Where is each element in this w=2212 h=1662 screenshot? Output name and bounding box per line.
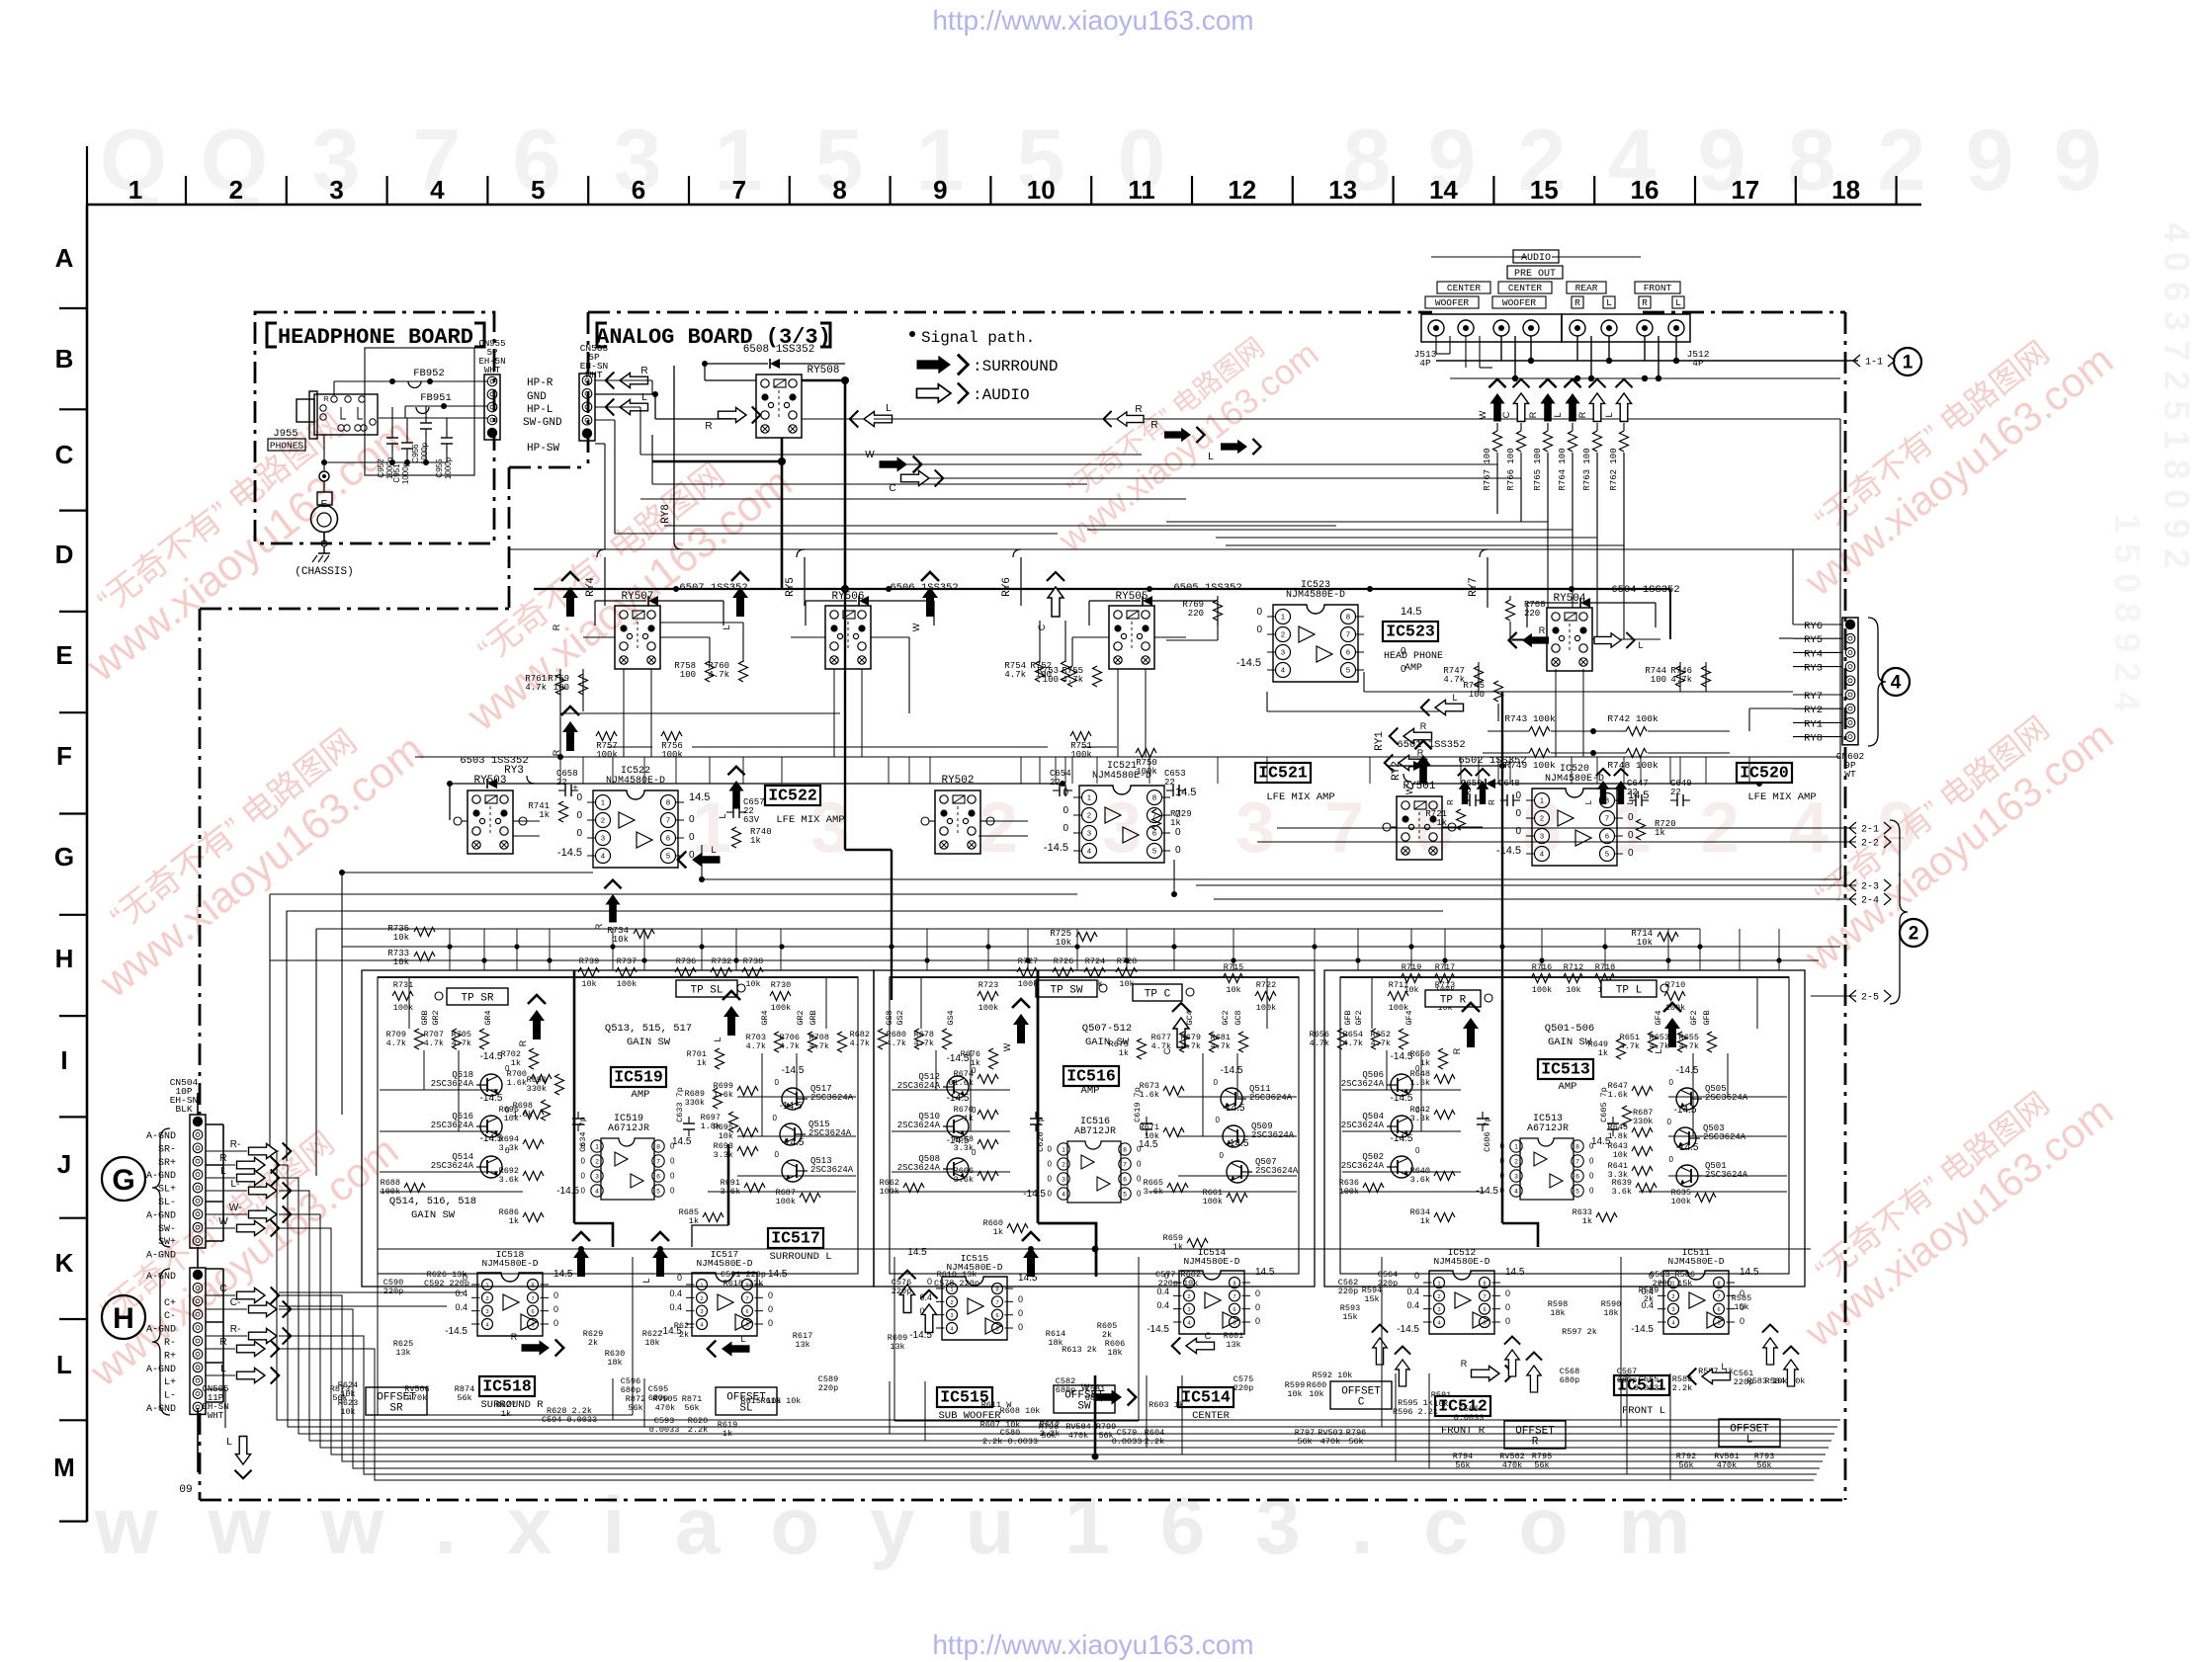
node 2-1 xyxy=(1277,822,1891,836)
svg-text:L: L xyxy=(1584,799,1593,804)
box OFFSET SW xyxy=(1054,1385,1115,1413)
svg-text:R722: R722 xyxy=(1256,980,1276,990)
svg-text:HEAD PHONE: HEAD PHONE xyxy=(1384,651,1443,662)
svg-text:1: 1 xyxy=(700,1284,703,1289)
svg-text:0.4: 0.4 xyxy=(669,1302,682,1312)
svg-text:13k: 13k xyxy=(890,1342,904,1352)
svg-text:6506 1SS352: 6506 1SS352 xyxy=(890,582,958,594)
svg-text:-14.5: -14.5 xyxy=(1496,845,1521,857)
rotated labels GF block C xyxy=(1343,1010,1712,1025)
svg-text:L: L xyxy=(1638,640,1643,650)
svg-text:10k: 10k xyxy=(581,979,596,989)
svg-text:10k: 10k xyxy=(1637,938,1653,948)
svg-text:GRB: GRB xyxy=(420,1010,430,1025)
svg-text:E: E xyxy=(55,640,72,670)
wires relay band xyxy=(415,589,1840,760)
connector CN955 xyxy=(478,339,505,440)
svg-text:R613 2k: R613 2k xyxy=(1062,1345,1097,1355)
svg-text:0: 0 xyxy=(553,1304,558,1314)
svg-text:100k: 100k xyxy=(1018,979,1038,989)
svg-text:1.6k: 1.6k xyxy=(1410,1078,1430,1088)
svg-text:R603 1k: R603 1k xyxy=(1149,1400,1184,1410)
svg-text:220p 13k: 220p 13k xyxy=(1158,1279,1199,1288)
svg-text:14.5: 14.5 xyxy=(1505,1267,1525,1278)
node 1-1 xyxy=(1853,355,1895,369)
svg-text:10k: 10k xyxy=(1226,985,1240,995)
svg-text:0: 0 xyxy=(1048,1175,1053,1184)
svg-text:2SC3624A: 2SC3624A xyxy=(1341,1079,1385,1089)
svg-text:RY502: RY502 xyxy=(941,775,974,787)
svg-text:14: 14 xyxy=(1429,175,1458,205)
svg-text:3.3k: 3.3k xyxy=(499,1143,519,1153)
svg-text:01.6k: 01.6k xyxy=(948,1078,974,1088)
svg-text:2SC3624A: 2SC3624A xyxy=(1341,1121,1385,1130)
svg-text:2: 2 xyxy=(1671,1294,1674,1300)
relay RY503 xyxy=(454,775,527,854)
svg-text:14.5: 14.5 xyxy=(1591,1136,1611,1147)
svg-text:RY4: RY4 xyxy=(585,577,597,597)
svg-text:L: L xyxy=(711,845,716,855)
svg-text:R737: R737 xyxy=(617,956,637,966)
label RY2 xyxy=(1391,761,1411,782)
svg-text:GR2: GR2 xyxy=(796,1010,806,1025)
svg-text:0: 0 xyxy=(1505,1302,1510,1312)
svg-text:100: 100 xyxy=(1651,675,1666,685)
svg-text:0: 0 xyxy=(1175,845,1181,856)
node 2-5 xyxy=(1811,990,1891,1004)
arrow R gain C xyxy=(1452,1003,1480,1054)
svg-text:4: 4 xyxy=(601,852,605,861)
svg-text:10k: 10k xyxy=(393,957,409,967)
svg-text:0: 0 xyxy=(1669,1155,1674,1164)
IC520 label box xyxy=(1737,763,1817,803)
svg-text:6: 6 xyxy=(1346,648,1350,657)
svg-text:L: L xyxy=(1721,1362,1726,1371)
arrow R relay band xyxy=(552,572,579,630)
svg-text:1 5 0 8 9 2 4: 1 5 0 8 9 2 4 xyxy=(2107,514,2148,711)
svg-text:1: 1 xyxy=(595,1143,599,1150)
svg-text:R-: R- xyxy=(230,1139,241,1150)
svg-text:R764 100: R764 100 xyxy=(1558,448,1568,490)
svg-text:L-: L- xyxy=(231,1179,240,1190)
svg-text:2k: 2k xyxy=(679,1330,689,1340)
svg-text:3: 3 xyxy=(1102,789,1142,868)
svg-text:L+: L+ xyxy=(164,1377,176,1388)
callout 4 xyxy=(1868,618,1910,746)
svg-text:PRE OUT: PRE OUT xyxy=(1514,269,1556,280)
svg-text:1k: 1k xyxy=(1655,828,1665,838)
arrow L down CN505 xyxy=(206,1389,252,1478)
svg-text:0: 0 xyxy=(1255,1302,1260,1312)
pre out connectors J513 J512 xyxy=(1414,250,1710,369)
svg-text:0.0033: 0.0033 xyxy=(1634,1383,1664,1393)
arrow C relay band xyxy=(1037,572,1064,630)
svg-text:5: 5 xyxy=(666,852,670,861)
svg-text:F: F xyxy=(56,741,72,771)
svg-text:GF2: GF2 xyxy=(1689,1010,1699,1025)
page frame with grid rulers xyxy=(53,146,1921,1522)
svg-text:L-: L- xyxy=(164,1391,176,1402)
resistor R687b xyxy=(1623,1106,1654,1126)
diode 6503 1SS352 xyxy=(447,755,1065,789)
svg-text:8: 8 xyxy=(1483,1282,1486,1288)
svg-text:WHT: WHT xyxy=(208,1411,224,1421)
CN955 pin labels xyxy=(523,377,562,455)
svg-text:0.0033: 0.0033 xyxy=(1112,1437,1143,1447)
arrow L gain A xyxy=(713,991,740,1042)
svg-text:100k: 100k xyxy=(1256,1003,1276,1013)
svg-text:0: 0 xyxy=(1048,1160,1053,1169)
svg-text:3: 3 xyxy=(1187,1307,1190,1313)
label CHASSIS xyxy=(295,566,353,578)
arrow L IC522 xyxy=(678,845,721,869)
svg-text:-14.5: -14.5 xyxy=(480,1093,503,1104)
svg-text:AMP: AMP xyxy=(632,1089,650,1101)
svg-text:4: 4 xyxy=(1540,850,1544,859)
capacitors C647 C649 xyxy=(1627,779,1692,806)
svg-text:2.2k: 2.2k xyxy=(1672,1383,1692,1393)
svg-text:3: 3 xyxy=(485,1309,488,1315)
svg-text:R767 100: R767 100 xyxy=(1483,448,1492,490)
connector CN505 xyxy=(190,1268,229,1421)
CN505 signal arrows xyxy=(206,1284,291,1384)
svg-text:4.7k: 4.7k xyxy=(708,670,729,680)
amp IC513 A6712JR xyxy=(1476,1114,1611,1200)
svg-text:WHT: WHT xyxy=(585,370,602,380)
svg-text:E: E xyxy=(321,499,328,510)
svg-text:C620 7p: C620 7p xyxy=(1036,1117,1046,1152)
svg-text:L: L xyxy=(718,813,727,818)
svg-text:18k: 18k xyxy=(1603,1308,1618,1318)
mid resistors row2 xyxy=(392,956,1685,1013)
svg-text:R: R xyxy=(640,366,647,376)
svg-text:1: 1 xyxy=(128,175,142,205)
relay RY506 xyxy=(825,591,871,669)
svg-text:1k: 1k xyxy=(993,1227,1003,1237)
svg-text:1k: 1k xyxy=(697,1058,707,1068)
capacitor C956 1000p xyxy=(411,416,432,464)
label RY1 xyxy=(1374,731,1386,751)
svg-text:HP-R: HP-R xyxy=(527,377,553,389)
svg-text:220p: 220p xyxy=(1234,1383,1253,1393)
svg-text:4.7k: 4.7k xyxy=(1310,1039,1329,1048)
svg-text:4.7k: 4.7k xyxy=(1181,1041,1201,1051)
svg-text:1k: 1k xyxy=(539,810,550,820)
svg-text:4: 4 xyxy=(1891,673,1902,694)
svg-text:-14.5: -14.5 xyxy=(1631,1324,1654,1335)
svg-text:A: A xyxy=(55,243,74,273)
svg-text:R611 W: R611 W xyxy=(981,1400,1013,1410)
svg-text:-14.5: -14.5 xyxy=(782,1137,805,1148)
svg-text:R-: R- xyxy=(230,1324,241,1335)
heavy line W channel B xyxy=(1038,970,1096,1277)
svg-text:2SC3624A: 2SC3624A xyxy=(1251,1130,1295,1140)
IC511 label box xyxy=(1614,1375,1669,1417)
svg-text:100k: 100k xyxy=(661,750,683,760)
svg-text:Q501-506: Q501-506 xyxy=(1545,1023,1594,1035)
resistor R769 220 xyxy=(1182,596,1222,640)
svg-text:11: 11 xyxy=(1128,175,1155,205)
relay pin drops xyxy=(624,669,1583,757)
svg-text:56k: 56k xyxy=(332,1393,347,1403)
svg-text:1.6k: 1.6k xyxy=(507,1078,527,1088)
callout G xyxy=(102,1128,170,1247)
svg-text:0: 0 xyxy=(775,1078,780,1087)
svg-text:2: 2 xyxy=(229,175,243,205)
diode 6501 1SS352 xyxy=(1388,739,1505,771)
svg-text:1: 1 xyxy=(1062,1146,1065,1153)
svg-text:4P: 4P xyxy=(1419,358,1431,369)
svg-text:8: 8 xyxy=(1123,1146,1127,1153)
svg-text:2: 2 xyxy=(950,1300,953,1306)
svg-text:2SC3624A: 2SC3624A xyxy=(1703,1132,1746,1142)
svg-text:4: 4 xyxy=(430,175,445,205)
svg-text:0: 0 xyxy=(1018,1322,1023,1332)
mid resistors 10k row xyxy=(387,924,1678,967)
rotated labels GS block B xyxy=(885,1010,1243,1025)
svg-text:GND: GND xyxy=(527,391,547,403)
callout 1 xyxy=(1894,348,1921,375)
svg-text:2-2: 2-2 xyxy=(1861,839,1879,850)
svg-text:FRONT L: FRONT L xyxy=(1622,1405,1665,1417)
svg-text:C648: C648 xyxy=(1498,779,1520,789)
svg-text:GC8: GC8 xyxy=(1234,1010,1243,1025)
IC519 label box xyxy=(611,1067,666,1101)
svg-text:10k: 10k xyxy=(393,933,409,943)
svg-text:4: 4 xyxy=(595,1188,599,1195)
label RY4 xyxy=(585,557,605,606)
svg-text:Q507-512: Q507-512 xyxy=(1082,1023,1132,1035)
svg-text:C+: C+ xyxy=(164,1298,176,1309)
amp C resistors xyxy=(1310,1029,1717,1226)
svg-text:63V: 63V xyxy=(743,815,760,825)
node 2-4 xyxy=(1214,893,1891,907)
resistor R768 220 xyxy=(1506,596,1546,640)
svg-text:RY1: RY1 xyxy=(1374,731,1386,751)
svg-text:R584 10k: R584 10k xyxy=(1765,1376,1806,1386)
svg-text:14.5: 14.5 xyxy=(1139,1139,1158,1150)
svg-text:4 0 6 3 7 2 5 1 8 0 9 2: 4 0 6 3 7 2 5 1 8 0 9 2 xyxy=(2157,222,2197,568)
svg-text:2-4: 2-4 xyxy=(1861,896,1879,907)
svg-text:15k: 15k xyxy=(1342,1312,1357,1322)
capacitor C952 1000p xyxy=(377,431,398,479)
box OFFSET C xyxy=(1330,1381,1392,1409)
IC512 label box xyxy=(1435,1396,1490,1437)
resistor R721 1k xyxy=(1425,809,1465,830)
svg-text:2: 2 xyxy=(1087,811,1091,820)
svg-text:RY5: RY5 xyxy=(785,577,797,597)
gain sw label A bottom xyxy=(389,1196,476,1221)
svg-text:1: 1 xyxy=(1281,613,1285,622)
svg-text:4: 4 xyxy=(700,1323,703,1329)
svg-text:0.4: 0.4 xyxy=(1406,1287,1419,1296)
svg-text:C592 220p: C592 220p xyxy=(424,1279,469,1288)
svg-text:NJM4580E-D: NJM4580E-D xyxy=(1183,1256,1239,1267)
arrow L gain C xyxy=(1654,1003,1681,1054)
svg-text:SW-GND: SW-GND xyxy=(523,417,562,429)
svg-text:R: R xyxy=(1452,1047,1462,1054)
svg-text:10k: 10k xyxy=(1309,1389,1323,1399)
svg-text:0: 0 xyxy=(1589,1172,1594,1181)
svg-text:-14.5: -14.5 xyxy=(1676,1065,1699,1076)
headphone board outline xyxy=(255,312,494,543)
svg-text:NJM4580E-D: NJM4580E-D xyxy=(1433,1256,1489,1267)
heavy line R channel C xyxy=(1502,1000,1538,1247)
svg-text:7: 7 xyxy=(995,1300,998,1306)
svg-text:0: 0 xyxy=(1048,1190,1053,1199)
callout 2 xyxy=(1890,820,1927,1004)
svg-text:AMP: AMP xyxy=(1404,663,1422,674)
svg-text:Q514, 516, 518: Q514, 516, 518 xyxy=(389,1196,476,1207)
svg-text:G: G xyxy=(112,1164,134,1197)
label RY6 xyxy=(1001,557,1021,606)
svg-text:RY1: RY1 xyxy=(1804,718,1823,730)
svg-text:4P: 4P xyxy=(1692,358,1704,369)
svg-text:1k: 1k xyxy=(1170,818,1181,828)
svg-text:10: 10 xyxy=(1027,175,1056,205)
svg-text:L: L xyxy=(226,1437,232,1448)
svg-text:0: 0 xyxy=(1220,1151,1225,1160)
capacitor C620 7p xyxy=(1030,1112,1046,1152)
svg-text:1000p: 1000p xyxy=(401,461,410,484)
svg-text:AMP: AMP xyxy=(1081,1085,1100,1097)
svg-text:0: 0 xyxy=(576,792,582,803)
op-amp IC517 bottom xyxy=(659,1249,788,1337)
svg-text:SW-: SW- xyxy=(158,1224,176,1235)
capacitor C951 1000p xyxy=(392,436,413,484)
svg-text:WT: WT xyxy=(1844,769,1856,780)
svg-text:7: 7 xyxy=(531,1296,534,1302)
svg-text:(CHASSIS): (CHASSIS) xyxy=(295,566,353,578)
svg-text:R: R xyxy=(1532,1436,1539,1448)
svg-text:4.7k: 4.7k xyxy=(424,1039,444,1048)
svg-text:R738: R738 xyxy=(743,956,763,966)
IC513 label box xyxy=(1538,1059,1593,1093)
svg-text:-14.5: -14.5 xyxy=(480,1051,503,1062)
svg-text:10k: 10k xyxy=(1287,1389,1302,1399)
transistors Q505 Q503 Q501 xyxy=(1667,1065,1748,1187)
svg-text:0: 0 xyxy=(1018,1294,1023,1304)
svg-text:4.7k: 4.7k xyxy=(1371,1039,1391,1048)
svg-text:CENTER: CENTER xyxy=(1447,283,1482,293)
connector stems xyxy=(197,1093,199,1472)
svg-text:10k: 10k xyxy=(719,1131,733,1141)
svg-text:100: 100 xyxy=(680,670,696,680)
svg-text:1k: 1k xyxy=(1173,1242,1183,1252)
svg-text:GRB: GRB xyxy=(808,1010,818,1025)
bottom right component labels xyxy=(1338,1270,1806,1470)
svg-text:R: R xyxy=(1539,625,1546,635)
box OFFSET SR xyxy=(366,1387,427,1415)
svg-text:R731: R731 xyxy=(393,980,413,990)
svg-text:3: 3 xyxy=(950,1313,953,1319)
diode 6508 1SS352 xyxy=(702,344,845,369)
svg-text:15k: 15k xyxy=(1734,1302,1748,1312)
svg-text:100k: 100k xyxy=(1070,750,1092,760)
svg-text:HP-SW: HP-SW xyxy=(527,443,559,455)
test point TP SW xyxy=(1036,980,1107,997)
transistors Q506 Q504 Q502 xyxy=(1341,1051,1420,1178)
svg-text:0.4: 0.4 xyxy=(669,1288,682,1298)
svg-text:1: 1 xyxy=(1514,1143,1518,1150)
svg-text:0: 0 xyxy=(581,1142,586,1151)
svg-text:7: 7 xyxy=(732,175,746,205)
svg-text:1k: 1k xyxy=(964,1114,974,1123)
junction dots rails xyxy=(447,944,1781,962)
diode 6504 xyxy=(1527,584,1680,627)
CN504 signal arrows xyxy=(206,1139,291,1237)
svg-text:PHONES: PHONES xyxy=(270,441,304,452)
svg-text:6: 6 xyxy=(1123,1176,1127,1183)
svg-text:5: 5 xyxy=(656,1188,660,1195)
svg-text:14.5: 14.5 xyxy=(1175,787,1196,798)
capacitor C654 xyxy=(1050,769,1072,796)
svg-text:2: 2 xyxy=(601,816,605,825)
IC522 label box xyxy=(765,786,845,826)
svg-text:0: 0 xyxy=(1214,1078,1219,1087)
svg-text:W: W xyxy=(1404,786,1414,794)
svg-text:0: 0 xyxy=(553,1318,558,1328)
svg-text:9: 9 xyxy=(1966,111,2014,208)
svg-text:C605 7p: C605 7p xyxy=(1599,1087,1609,1122)
svg-text:L: L xyxy=(1553,412,1563,417)
svg-text:R592 10k: R592 10k xyxy=(1313,1371,1353,1380)
arrow up sw xyxy=(898,1271,937,1333)
svg-text:0.0033: 0.0033 xyxy=(1454,1413,1485,1423)
svg-text:0: 0 xyxy=(1216,1116,1221,1124)
svg-text:1.8k: 1.8k xyxy=(1608,1131,1628,1141)
svg-text:G: G xyxy=(54,842,74,872)
IC521 label box xyxy=(1255,763,1335,803)
svg-text:56k: 56k xyxy=(684,1403,699,1413)
IC518 label box xyxy=(479,1376,544,1411)
svg-text:3: 3 xyxy=(1671,1307,1674,1313)
svg-text:1: 1 xyxy=(1437,1282,1440,1288)
svg-text:-14.5: -14.5 xyxy=(1223,1103,1245,1114)
svg-text:0: 0 xyxy=(1063,805,1068,816)
svg-text:J955: J955 xyxy=(273,428,298,440)
svg-text:0: 0 xyxy=(1500,1157,1505,1166)
svg-text:-14.5: -14.5 xyxy=(1227,1138,1249,1149)
svg-text:C: C xyxy=(1501,411,1511,418)
svg-text:W: W xyxy=(1081,1382,1090,1392)
svg-text:R: R xyxy=(1488,799,1496,805)
svg-text:6: 6 xyxy=(995,1313,998,1319)
svg-text:-14.5: -14.5 xyxy=(556,1186,579,1197)
svg-text:GF2: GF2 xyxy=(1354,1010,1364,1025)
svg-text:0: 0 xyxy=(581,1187,586,1196)
arrow up into IC515 xyxy=(1022,1232,1099,1460)
svg-text:W: W xyxy=(1478,410,1488,419)
svg-text:W: W xyxy=(1002,1042,1012,1051)
svg-text:7: 7 xyxy=(1717,1294,1720,1300)
svg-text:0: 0 xyxy=(775,1150,780,1159)
svg-text:4.7k: 4.7k xyxy=(1004,670,1026,680)
capacitor C633 7p xyxy=(675,1087,695,1136)
svg-text:-14.5: -14.5 xyxy=(1676,1142,1699,1153)
svg-text:SL+: SL+ xyxy=(158,1185,176,1196)
svg-text:2: 2 xyxy=(1187,1294,1190,1300)
svg-text:3.6k: 3.6k xyxy=(499,1175,519,1185)
svg-text:RY5: RY5 xyxy=(1804,634,1823,646)
svg-text:3.6k: 3.6k xyxy=(954,1175,974,1185)
bottom 14.5 rail xyxy=(279,1246,1811,1427)
svg-text:0: 0 xyxy=(1515,790,1521,801)
svg-text:C951: C951 xyxy=(392,463,401,483)
svg-text:5: 5 xyxy=(1575,1188,1579,1195)
svg-text:13k: 13k xyxy=(795,1340,809,1350)
svg-text:1: 1 xyxy=(1087,793,1091,802)
